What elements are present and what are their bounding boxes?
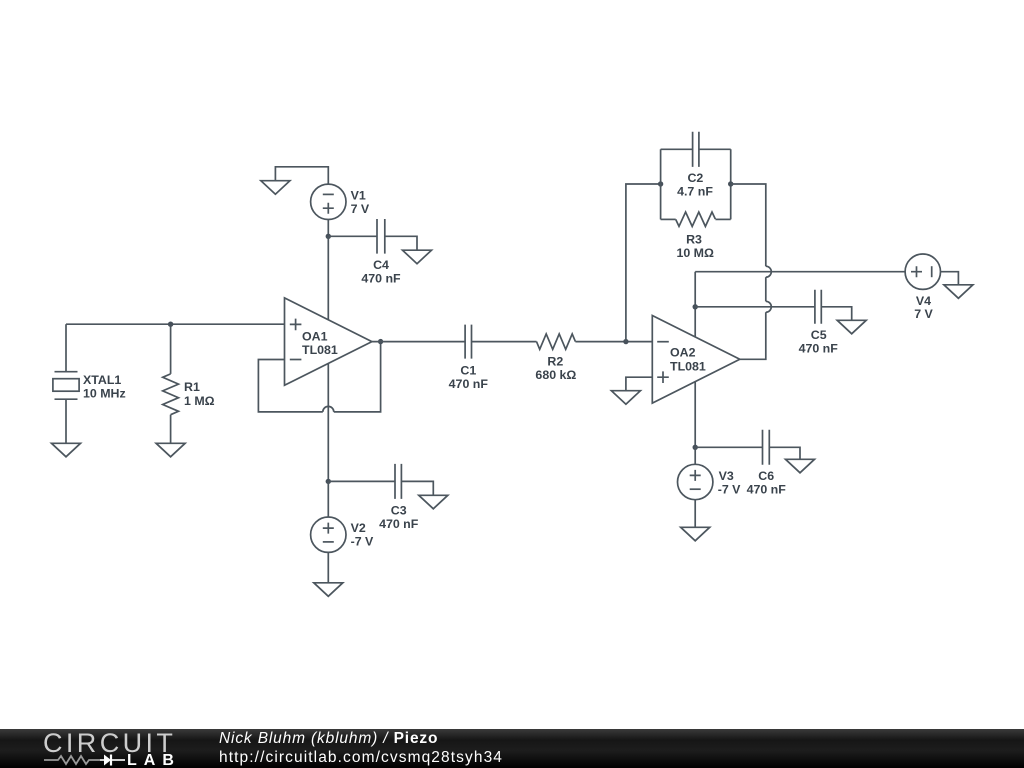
svg-text:-7 V: -7 V bbox=[351, 534, 374, 548]
svg-text:7 V: 7 V bbox=[351, 202, 370, 216]
svg-text:OA1: OA1 bbox=[302, 330, 328, 344]
svg-text:R1: R1 bbox=[184, 380, 200, 394]
svg-text:10 MHz: 10 MHz bbox=[83, 387, 126, 401]
svg-text:C2: C2 bbox=[687, 171, 703, 185]
svg-text:-7 V: -7 V bbox=[718, 482, 741, 496]
svg-text:C4: C4 bbox=[373, 258, 389, 272]
svg-text:C5: C5 bbox=[811, 328, 827, 342]
svg-text:OA2: OA2 bbox=[670, 346, 696, 360]
svg-text:V3: V3 bbox=[719, 469, 734, 483]
svg-text:C1: C1 bbox=[460, 364, 476, 378]
svg-text:470 nF: 470 nF bbox=[747, 482, 787, 496]
svg-text:1 MΩ: 1 MΩ bbox=[184, 394, 215, 408]
svg-text:V1: V1 bbox=[351, 188, 366, 202]
svg-text:4.7 nF: 4.7 nF bbox=[677, 185, 713, 199]
svg-text:10 MΩ: 10 MΩ bbox=[676, 246, 714, 260]
svg-text:C6: C6 bbox=[758, 469, 774, 483]
svg-text:470 nF: 470 nF bbox=[449, 377, 489, 391]
svg-text:470 nF: 470 nF bbox=[379, 517, 419, 531]
svg-text:V2: V2 bbox=[351, 521, 366, 535]
svg-text:680 kΩ: 680 kΩ bbox=[535, 368, 576, 382]
svg-text:TL081: TL081 bbox=[670, 359, 706, 373]
svg-text:C3: C3 bbox=[391, 504, 407, 518]
svg-text:XTAL1: XTAL1 bbox=[83, 373, 121, 387]
svg-text:TL081: TL081 bbox=[302, 343, 338, 357]
svg-text:R3: R3 bbox=[686, 233, 702, 247]
svg-text:470 nF: 470 nF bbox=[361, 272, 401, 286]
svg-text:7 V: 7 V bbox=[914, 307, 933, 321]
svg-text:R2: R2 bbox=[547, 355, 563, 369]
svg-text:V4: V4 bbox=[916, 294, 931, 308]
svg-text:470 nF: 470 nF bbox=[799, 342, 839, 356]
